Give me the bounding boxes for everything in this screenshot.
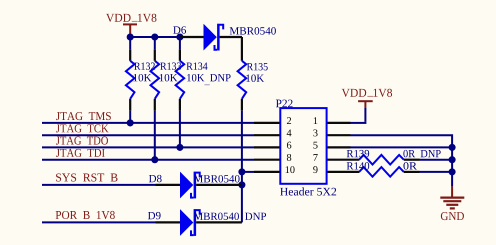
resistor R135	[238, 37, 268, 111]
wire R134 bottom (to JTAG_TDO line)	[179, 111, 181, 148]
resistor R140	[347, 162, 420, 177]
wire pin1 to VDD	[351, 122, 367, 124]
wire JTAG_TCK	[42, 134, 254, 136]
pin number 8	[287, 154, 291, 161]
pin number 7	[314, 154, 318, 161]
node junction (452,147.4)	[449, 144, 456, 151]
net label SYS_RST_B	[56, 173, 117, 181]
node junction (242,184.9)	[238, 181, 245, 188]
pin 6	[254, 146, 280, 148]
pin number 3	[313, 129, 317, 136]
wire JTAG_TDO	[42, 146, 254, 148]
pin 9	[327, 171, 360, 173]
net label JTAG_TDO	[56, 137, 108, 145]
node junction (180,37)	[176, 33, 183, 40]
pin 8	[254, 159, 280, 161]
power port VDD_1V8 (right)	[342, 89, 392, 122]
node junction (130,123)	[127, 119, 134, 126]
node junction (155,37)	[151, 33, 158, 40]
R134 value underscore (faint)	[204, 84, 209, 85]
wire right vertical to GND	[451, 146, 453, 186]
pin number 1	[314, 117, 318, 124]
comment Header 5X2	[280, 187, 336, 195]
wire R140 to right vertical	[420, 171, 453, 173]
pin number 2	[287, 117, 291, 124]
wire R132 bottom	[129, 111, 131, 123]
resistor R133	[151, 49, 182, 110]
connector P22 body	[280, 108, 326, 184]
wire SYS_RST_B	[42, 184, 156, 186]
net label JTAG_TCK	[56, 124, 109, 132]
node junction (130,37)	[127, 33, 134, 40]
node junction (242,171.9)	[238, 168, 245, 175]
wire R133 bottom (to JTAG_TDI line)	[154, 111, 156, 160]
wire POR_B_1V8	[42, 221, 156, 223]
node junction (452,159.7)	[449, 156, 456, 163]
pin number 10	[286, 166, 295, 173]
pin 1	[327, 122, 351, 124]
wire pin5 row to right	[351, 146, 453, 148]
net label POR_B_1V8	[56, 211, 115, 219]
resistor R134	[176, 49, 231, 110]
pin 5	[327, 146, 351, 148]
header P22 pins left (black stubs)	[254, 123, 280, 172]
pin 4	[254, 134, 280, 136]
node junction (452,171.9)	[449, 168, 456, 175]
node junction (155,159.7)	[151, 156, 158, 163]
pin 3	[327, 134, 351, 136]
node junction (180,147.4)	[176, 144, 183, 151]
pin number 9	[313, 166, 317, 173]
diode D8 MBR0540	[149, 172, 242, 199]
diode D6 MBR0540	[173, 24, 276, 51]
pin 7	[327, 159, 360, 161]
wire R134 top	[179, 37, 181, 49]
wire JTAG_TMS	[42, 122, 254, 124]
wire top rail	[127, 36, 180, 38]
net label JTAG_TDI	[56, 149, 105, 157]
pin 2	[254, 122, 280, 124]
wire JTAG_TDI	[42, 159, 254, 161]
wire R132 top	[129, 37, 131, 49]
pin number 6	[287, 142, 291, 149]
designator P22	[276, 100, 293, 108]
pin number 4	[287, 130, 292, 137]
resistor R132	[126, 49, 155, 110]
pin 10	[254, 171, 280, 173]
wire R139 to right vertical	[420, 159, 453, 161]
power port VDD_1V8 (top-left)	[106, 14, 156, 37]
diode D9 MBR0540_DNP	[148, 209, 266, 236]
net label JTAG_TMS	[56, 112, 111, 120]
power port GND	[440, 186, 464, 220]
resistor R139	[347, 150, 441, 165]
wire R133 top	[154, 37, 156, 49]
wire pin3 row to right	[351, 135, 453, 147]
header P22 pins right (black stubs)	[327, 123, 360, 172]
pin number 5	[313, 142, 317, 149]
wire pin10 row	[242, 171, 254, 173]
wire R135 column down	[241, 111, 243, 223]
